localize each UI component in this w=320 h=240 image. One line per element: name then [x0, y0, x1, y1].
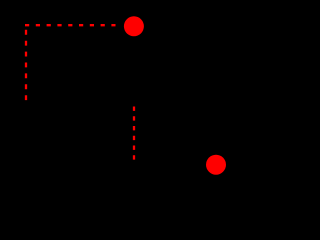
- wire vertical dashed segment middle: [133, 107, 135, 160]
- wire horizontal dashed segment from corner to node A: [25, 24, 116, 26]
- node A red junction dot: [124, 16, 144, 36]
- wire vertical dashed segment left (corner down): [25, 30, 27, 102]
- node B red junction dot: [206, 155, 226, 175]
